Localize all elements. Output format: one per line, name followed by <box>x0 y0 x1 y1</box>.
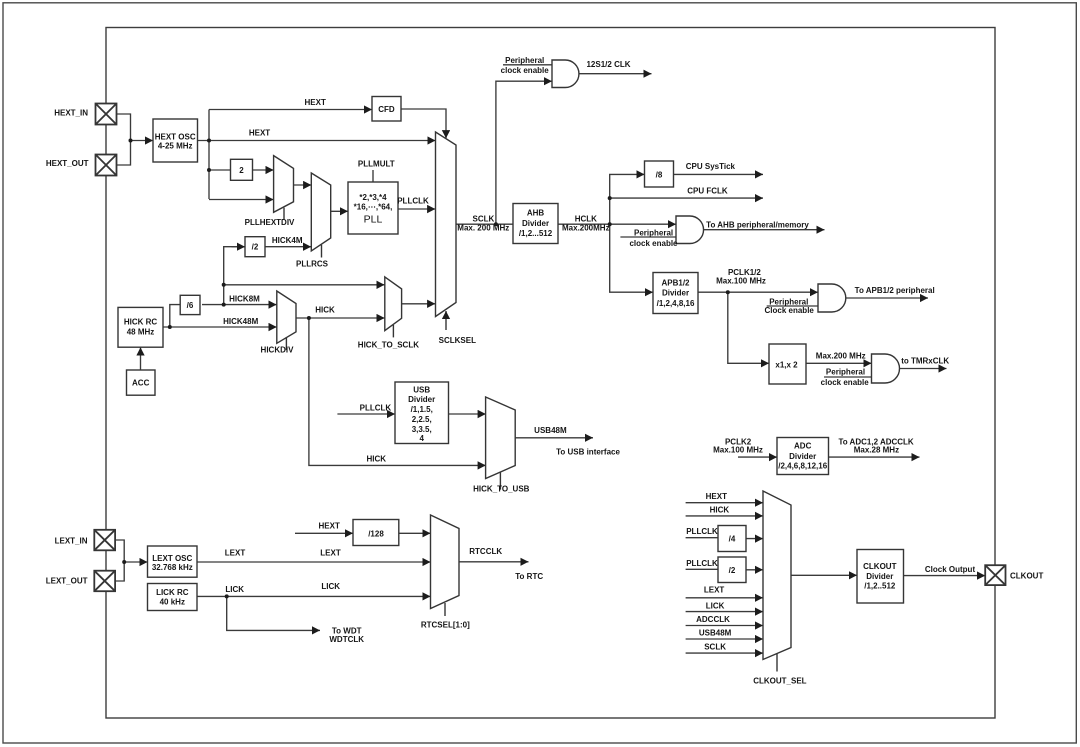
svg-text:Peripheral: Peripheral <box>505 56 544 65</box>
wire ADCCLK to CLKOUT_SEL <box>686 625 763 627</box>
wire CPU FCLK <box>610 197 763 199</box>
wire HICK down to HICK_TO_USB <box>309 318 486 465</box>
mux SCLKSEL <box>436 132 457 330</box>
svg-text:Clock enable: Clock enable <box>765 306 815 315</box>
wire Clock Output to CLKOUT pin <box>904 575 986 577</box>
wire LICK to RTCSEL <box>197 595 431 597</box>
svg-text:CLKOUT: CLKOUT <box>1010 571 1043 580</box>
svg-text:HICK RC: HICK RC <box>124 317 158 326</box>
junction HICK8M lower <box>222 303 226 307</box>
junction LICK <box>225 594 229 598</box>
svg-text:LICK: LICK <box>321 582 340 591</box>
svg-text:PLL: PLL <box>364 214 383 226</box>
svg-text:*2,*3,*4: *2,*3,*4 <box>359 193 387 202</box>
wire TMR gate enable line <box>824 376 872 378</box>
diagram frame <box>106 28 995 719</box>
wire to box 2 <box>209 169 231 171</box>
block /4 clkout <box>718 526 746 552</box>
svg-text:Divider: Divider <box>866 572 893 581</box>
svg-text:LICK RC: LICK RC <box>156 588 189 597</box>
svg-text:SCLKSEL: SCLKSEL <box>439 336 476 345</box>
wire junction to LEXT OSC <box>124 561 147 563</box>
block ADC Divider <box>777 438 829 475</box>
wire /8 to CPU SysTick <box>674 173 764 175</box>
svg-text:PLLCLK: PLLCLK <box>686 527 718 536</box>
svg-text:/6: /6 <box>187 301 194 310</box>
svg-text:CLKOUT: CLKOUT <box>863 562 896 571</box>
pin HEXT_IN <box>96 104 117 125</box>
wire HEXT OSC output riser <box>198 110 210 200</box>
svg-text:HICK48M: HICK48M <box>223 317 258 326</box>
svg-text:4: 4 <box>419 434 424 443</box>
wire HICK RC out HICK48M <box>163 326 277 328</box>
junction PCLK12 <box>726 290 730 294</box>
block /2 HICK4M <box>245 237 265 257</box>
wire HEXT_IN to junction <box>117 114 131 141</box>
wire AHB gate enable line <box>620 236 676 238</box>
svg-text:32.768 kHz: 32.768 kHz <box>152 563 193 572</box>
gate TMR AND <box>872 354 900 383</box>
svg-text:USB48M: USB48M <box>534 426 567 435</box>
svg-text:clock enable: clock enable <box>821 378 870 387</box>
wire HCLK riser up to /8 <box>610 174 645 224</box>
wire SCLK to CLKOUT_SEL <box>686 652 763 654</box>
svg-text:HICK4M: HICK4M <box>272 236 303 245</box>
wire ACC to HICK RC <box>140 347 142 370</box>
wire PLLRCS to PLL <box>331 210 348 212</box>
wire CLKOUT_SEL to CLKOUT Divider <box>791 574 857 576</box>
block /2 clkout <box>718 557 746 583</box>
svg-text:clock enable: clock enable <box>501 66 550 75</box>
junction HICK48M <box>168 325 172 329</box>
svg-text:/2,4,6,8,12,16: /2,4,6,8,12,16 <box>778 462 827 471</box>
svg-text:HICKDIV: HICKDIV <box>261 346 295 355</box>
svg-text:ADCCLK: ADCCLK <box>696 615 730 624</box>
wire /2 to CLKOUT_SEL <box>746 569 763 571</box>
wire /6 out HICK8M to HICKDIV <box>202 304 277 306</box>
wire PCLK to APB gate <box>698 291 818 293</box>
block HICK RC <box>118 307 163 347</box>
block 2 <box>231 159 253 180</box>
svg-text:LICK: LICK <box>706 601 725 610</box>
svg-text:LEXT: LEXT <box>225 548 246 557</box>
wire junction to HEXT OSC <box>131 140 154 142</box>
svg-text:/8: /8 <box>656 170 663 179</box>
svg-text:CPU FCLK: CPU FCLK <box>687 186 728 195</box>
wire HEXT to CFD <box>209 109 372 111</box>
gate AHB AND <box>676 216 704 244</box>
block LEXT OSC <box>148 546 198 577</box>
block LICK RC <box>148 584 198 611</box>
svg-text:Peripheral: Peripheral <box>826 368 865 377</box>
block APB1/2 Divider <box>653 273 698 314</box>
wire LEXT_OUT to junction <box>115 562 124 581</box>
wire x1x2 to TMR gate <box>806 362 872 364</box>
svg-text:CFD: CFD <box>378 105 395 114</box>
wire HEXT to SCLKSEL <box>209 140 436 142</box>
mux PLLHEXTDIV <box>274 156 294 220</box>
svg-text:to TMRxCLK: to TMRxCLK <box>901 357 949 366</box>
pin CLKOUT <box>985 565 1005 585</box>
svg-text:HICK: HICK <box>315 306 335 315</box>
svg-text:USB: USB <box>413 385 430 394</box>
mux HICK_TO_SCLK <box>385 277 402 338</box>
svg-text:HICK: HICK <box>710 506 730 515</box>
svg-text:HEXT: HEXT <box>249 129 270 138</box>
wire PLLCLK PLL to SCLKSEL <box>398 208 435 210</box>
mux CLKOUT_SEL <box>763 491 791 672</box>
wire TMR gate output <box>899 368 947 370</box>
svg-text:Max. 200 MHz: Max. 200 MHz <box>457 224 509 233</box>
svg-text:LEXT: LEXT <box>320 548 341 557</box>
svg-text:PLLCLK: PLLCLK <box>397 197 429 206</box>
svg-text:/128: /128 <box>368 530 384 539</box>
svg-text:PLLCLK: PLLCLK <box>360 403 392 412</box>
wire APB gate output <box>846 297 929 299</box>
wire box 2 to PLLHEXTDIV <box>253 169 274 171</box>
svg-text:USB48M: USB48M <box>699 629 732 638</box>
svg-text:/1,2,4,8,16: /1,2,4,8,16 <box>657 299 695 308</box>
wire I2S gate output <box>579 73 652 75</box>
junction LEXT pins <box>122 560 126 564</box>
block /6 <box>180 295 200 314</box>
wire PLLCLK to USB Divider <box>337 413 395 415</box>
wire ADC divider output <box>829 456 920 458</box>
svg-text:*16,⋯,*64,: *16,⋯,*64, <box>354 203 393 212</box>
wire APB gate enable line <box>767 305 818 307</box>
svg-text:To APB1/2 peripheral: To APB1/2 peripheral <box>855 286 935 295</box>
wire LEXT to RTCSEL <box>197 561 431 563</box>
block CLKOUT Divider <box>857 550 904 604</box>
svg-text:HICK_TO_USB: HICK_TO_USB <box>473 485 530 494</box>
wire LEXT_IN to junction <box>115 540 124 562</box>
svg-text:12S1/2 CLK: 12S1/2 CLK <box>586 60 630 69</box>
wire HEXT lower to PLLHEXTDIV <box>209 199 274 201</box>
wire HEXT_OUT to junction <box>117 141 131 166</box>
svg-text:HEXT: HEXT <box>319 522 340 531</box>
block x1,x2 <box>769 344 806 384</box>
pin HEXT_OUT <box>96 155 117 176</box>
svg-text:HEXT: HEXT <box>305 98 326 107</box>
mux PLLRCS <box>311 173 330 258</box>
wire HICK8M to HICK_TO_SCLK <box>224 284 385 286</box>
wire HEXT to /128 <box>295 532 353 534</box>
svg-text:PLLHEXTDIV: PLLHEXTDIV <box>245 218 295 227</box>
svg-text:LICK: LICK <box>225 585 244 594</box>
svg-text:CLKOUT_SEL: CLKOUT_SEL <box>753 677 806 686</box>
wire HICK8M riser to /2 <box>224 247 245 305</box>
wire PLLCLK to /2 <box>686 568 718 570</box>
svg-text:WDTCLK: WDTCLK <box>329 635 364 644</box>
wire PLLCLK to /4 <box>686 537 718 539</box>
svg-text:/1,1.5,: /1,1.5, <box>411 405 433 414</box>
svg-text:/2: /2 <box>252 243 259 252</box>
svg-text:RTCCLK: RTCCLK <box>469 547 502 556</box>
junction HEXT pins <box>129 139 133 143</box>
junction HICK out <box>307 316 311 320</box>
block USB Divider <box>395 382 449 444</box>
block ACC <box>127 370 156 395</box>
svg-text:SCLK: SCLK <box>473 215 495 224</box>
svg-text:APB1/2: APB1/2 <box>661 279 690 288</box>
wire PCLK down to x1x2 <box>728 292 769 363</box>
svg-text:LEXT OSC: LEXT OSC <box>152 554 192 563</box>
svg-text:HCLK: HCLK <box>575 215 597 224</box>
svg-text:/1,2...512: /1,2...512 <box>519 229 553 238</box>
wire USB48M to CLKOUT_SEL <box>686 638 763 640</box>
svg-text:Max.100 MHz: Max.100 MHz <box>713 446 763 455</box>
svg-text:To RTC: To RTC <box>515 572 543 581</box>
wire RTCCLK out <box>459 561 529 563</box>
svg-text:LEXT_IN: LEXT_IN <box>55 537 88 546</box>
wire USB Divider to HICK_TO_USB <box>449 413 486 415</box>
pin LEXT_OUT <box>94 571 115 592</box>
svg-text:2: 2 <box>239 166 244 175</box>
wire HICK_TO_SCLK to SCLKSEL <box>402 303 436 305</box>
wire CFD to SCLKSEL top <box>401 109 446 138</box>
junction CPU FCLK <box>608 196 612 200</box>
svg-text:/1,2..512: /1,2..512 <box>864 582 896 591</box>
svg-text:Clock Output: Clock Output <box>925 565 976 574</box>
svg-text:Divider: Divider <box>789 452 816 461</box>
wire SCLK to AHB Divider <box>456 223 513 225</box>
svg-text:HICK8M: HICK8M <box>229 294 260 303</box>
mux HICK_TO_USB <box>486 397 516 490</box>
svg-text:LEXT_OUT: LEXT_OUT <box>46 577 88 586</box>
svg-text:HICK_TO_SCLK: HICK_TO_SCLK <box>358 340 419 349</box>
svg-text:PLLRCS: PLLRCS <box>296 260 329 269</box>
wire HCLK to AHB gate <box>558 223 676 225</box>
svg-text:Divider: Divider <box>408 395 435 404</box>
wire AHB gate output <box>704 229 825 231</box>
svg-text:2,2.5,: 2,2.5, <box>412 415 432 424</box>
wire /128 to RTCSEL <box>399 532 431 534</box>
block PLL <box>348 182 398 234</box>
svg-text:HICK: HICK <box>367 455 387 464</box>
wire HICK4M /2 to PLLRCS <box>265 246 311 248</box>
wire HCLK down to APB divider <box>610 224 653 292</box>
svg-text:/2: /2 <box>729 566 736 575</box>
pin LEXT_IN <box>94 530 115 551</box>
block HEXT OSC <box>153 119 198 162</box>
wire /4 to CLKOUT_SEL <box>746 538 763 540</box>
wire PLLHEXTDIV to PLLRCS <box>294 184 312 186</box>
junction HEXT osc out <box>207 139 211 143</box>
svg-text:Divider: Divider <box>522 219 549 228</box>
block CFD <box>372 97 401 122</box>
wire HICK to CLKOUT_SEL <box>686 515 763 517</box>
wire PLLMULT tick <box>372 170 374 182</box>
junction HCLK <box>608 222 612 226</box>
svg-text:SCLK: SCLK <box>704 643 726 652</box>
junction HICK8M upper <box>222 283 226 287</box>
wire HEXT to CLKOUT_SEL <box>686 502 763 504</box>
svg-text:3,3.5,: 3,3.5, <box>412 425 432 434</box>
svg-text:PLLMULT: PLLMULT <box>358 160 395 169</box>
svg-text:LEXT: LEXT <box>704 586 725 595</box>
block /128 <box>353 520 399 546</box>
block AHB Divider <box>513 204 558 244</box>
svg-text:Max.200 MHz: Max.200 MHz <box>816 352 866 361</box>
svg-text:To USB interface: To USB interface <box>556 448 620 457</box>
block /8 <box>645 161 674 187</box>
junction SCLK <box>494 222 498 226</box>
svg-text:CPU SysTick: CPU SysTick <box>686 162 736 171</box>
wire PCLK2 to ADC divider <box>738 456 777 458</box>
wire LICK down to WDT <box>227 596 320 630</box>
svg-text:RTCSEL[1:0]: RTCSEL[1:0] <box>421 621 470 630</box>
wire LICK to CLKOUT_SEL <box>686 611 763 613</box>
wire HICKDIV out HICK to HICK_TO_SCLK <box>296 317 385 319</box>
svg-text:HEXT_IN: HEXT_IN <box>54 108 88 117</box>
svg-text:4-25 MHz: 4-25 MHz <box>158 142 193 151</box>
svg-text:PLLCLK: PLLCLK <box>686 559 718 568</box>
svg-text:HEXT OSC: HEXT OSC <box>155 133 196 142</box>
svg-text:Peripheral: Peripheral <box>634 228 673 237</box>
wire riser to /6 <box>170 305 180 327</box>
wire SCLK riser to I2S gate <box>496 81 552 224</box>
wire I2S enable line <box>503 64 552 66</box>
svg-text:/4: /4 <box>729 535 736 544</box>
svg-text:To AHB peripheral/memory: To AHB peripheral/memory <box>706 221 809 230</box>
wire LEXT to CLKOUT_SEL <box>686 597 763 599</box>
wire USB48M out <box>515 437 593 439</box>
svg-text:AHB: AHB <box>527 209 545 218</box>
mux HICKDIV <box>277 291 296 350</box>
svg-text:Max.100 MHz: Max.100 MHz <box>716 276 766 285</box>
svg-text:48 MHz: 48 MHz <box>127 327 155 336</box>
svg-text:ACC: ACC <box>132 378 150 387</box>
svg-text:x1,x 2: x1,x 2 <box>775 361 798 370</box>
gate APB AND <box>818 284 846 312</box>
svg-text:Peripheral: Peripheral <box>769 297 808 306</box>
svg-text:Divider: Divider <box>662 288 689 297</box>
svg-text:40 kHz: 40 kHz <box>160 597 185 606</box>
svg-text:ADC: ADC <box>794 441 812 450</box>
svg-text:HEXT_OUT: HEXT_OUT <box>46 159 89 168</box>
gate I2S AND <box>552 60 579 88</box>
svg-text:clock enable: clock enable <box>629 239 678 248</box>
mux RTCSEL <box>431 515 460 616</box>
svg-text:Max.28 MHz: Max.28 MHz <box>854 446 899 455</box>
junction box2 branch <box>207 168 211 172</box>
svg-text:Max.200MHz: Max.200MHz <box>562 224 610 233</box>
svg-text:HEXT: HEXT <box>706 492 727 501</box>
